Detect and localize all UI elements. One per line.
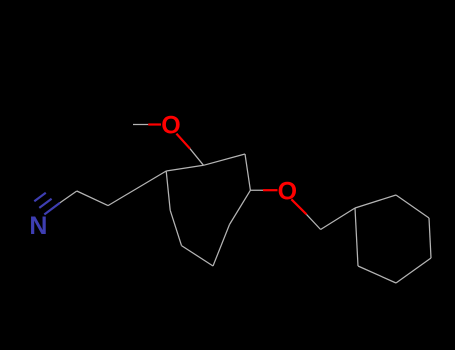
ring edge B5-B6 bbox=[358, 266, 396, 283]
ring edge C4-C5 bbox=[213, 225, 230, 267]
ring edge B2-B3 bbox=[396, 195, 429, 218]
ring edge C5-C6 bbox=[182, 246, 214, 266]
bond O2 to CH2 (red half near O) bbox=[291, 199, 306, 214]
triple bond N≡C middle line (white half) bbox=[60, 191, 77, 203]
methoxy CH3-O bond (white half) bbox=[133, 124, 148, 126]
ring edge C1-C2 bbox=[204, 154, 246, 165]
ring edge C7-C8 bbox=[166, 171, 170, 210]
bond O2 to CH2 (white half) bbox=[307, 214, 321, 229]
triple bond lower parallel line (blue) bbox=[34, 193, 46, 202]
ring edge C8-C1 bbox=[166, 165, 203, 171]
bond ring C3 to O2 (red half near O) bbox=[263, 189, 278, 191]
methoxy CH3-O bond (red half near O) bbox=[148, 123, 161, 125]
nitrile chain: bond C(sp) to CH2a bbox=[77, 191, 108, 206]
svg-text:N: N bbox=[29, 212, 47, 240]
ring edge C6-C7 bbox=[170, 210, 181, 245]
triple bond N≡C middle line (blue half) bbox=[44, 203, 60, 215]
ring edge C2-C3 bbox=[245, 154, 250, 190]
bond ring C3 to O2 (white half) bbox=[250, 189, 263, 191]
bond CH2 to right ring ipso bbox=[321, 208, 355, 230]
bond O1 to ring C1 (red half near O) bbox=[176, 134, 190, 149]
triple bond upper parallel line (blue) bbox=[39, 199, 51, 208]
bond O1 to ring C1 (white half) bbox=[190, 149, 204, 166]
ring edge B1-B2 bbox=[355, 195, 396, 208]
ring edge C3-C4 bbox=[230, 190, 251, 224]
ring edge B3-B4 bbox=[429, 218, 431, 258]
ring edge B4-B5 bbox=[396, 258, 431, 283]
ring edge B6-B1 bbox=[355, 208, 358, 266]
bond CH2a to ring C8 bbox=[108, 171, 166, 206]
